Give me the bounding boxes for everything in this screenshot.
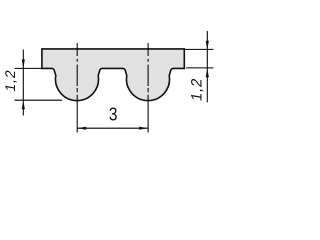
pitch dimension right arrowhead bbox=[139, 127, 148, 130]
centerline tooth 2 bbox=[147, 43, 149, 133]
left dimension label 1,2 bbox=[2, 68, 18, 93]
pitch dimension line 3 bbox=[77, 127, 148, 129]
right dimension lower arrowhead bbox=[206, 68, 209, 77]
right dimension upper arrowhead bbox=[206, 41, 209, 50]
left dimension 1,2 extension and dimension lines bbox=[15, 50, 63, 116]
right dimension 1,2 extension and dimension lines bbox=[185, 31, 214, 102]
svg-text:3: 3 bbox=[109, 103, 118, 125]
left dimension upper arrowhead bbox=[22, 59, 25, 68]
centerline tooth 1 bbox=[76, 43, 78, 133]
left dimension lower arrowhead bbox=[22, 101, 25, 110]
right dimension label 1,2 bbox=[189, 76, 206, 102]
pitch dimension left arrowhead bbox=[77, 127, 86, 130]
belt cross-section with two HTD teeth bbox=[42, 49, 184, 101]
pitch dimension label 3 bbox=[109, 103, 118, 125]
svg-text:1,2: 1,2 bbox=[189, 76, 206, 102]
svg-text:1,2: 1,2 bbox=[2, 68, 18, 93]
